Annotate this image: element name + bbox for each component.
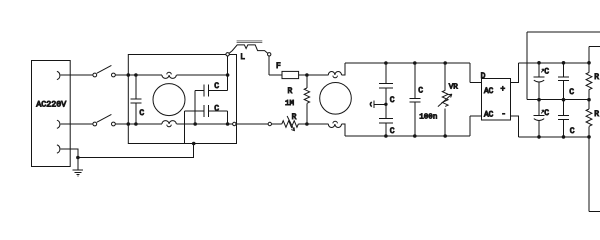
choke T2 top winding	[328, 71, 341, 77]
terminal 3 arc	[57, 145, 60, 153]
junction upper rail R2	[587, 61, 591, 65]
junction VR top rail	[443, 61, 447, 65]
capacitor C3 (lower cap in filter)	[184, 105, 227, 144]
svg-text:C: C	[214, 105, 219, 114]
wire node B to choke T2	[307, 123, 328, 125]
junction C4 top rail	[384, 61, 388, 65]
resistor R3 (bleeder lower)	[586, 100, 592, 137]
capacitor C2 (upper cap in filter)	[195, 56, 227, 124]
svg-text:C: C	[214, 82, 219, 91]
capacitor C10 (film lower)	[558, 100, 569, 137]
junction L at C2 drop	[226, 73, 230, 77]
capacitor C9 (electrolytic lower)	[534, 100, 545, 137]
wire bottom rail to bridge	[342, 124, 470, 136]
junction C1 bottom	[134, 122, 138, 126]
polarity mark C9	[541, 110, 543, 113]
choke T1 bottom winding	[162, 121, 176, 127]
wire from L down to fuse level	[269, 56, 282, 75]
svg-text:C: C	[569, 88, 574, 97]
wire filter N out to pot	[236, 123, 268, 125]
svg-text:F: F	[276, 62, 281, 71]
junction earth at filter case	[192, 142, 196, 146]
terminal 2 arc	[57, 120, 60, 128]
wire N to filter right side	[176, 123, 232, 125]
ground	[73, 158, 84, 177]
capacitor C4 (divider top)	[379, 63, 393, 104]
pin filter N out	[233, 122, 236, 125]
svg-text:C: C	[390, 127, 395, 136]
switch S1	[93, 65, 115, 77]
wire top rail to bridge	[342, 63, 470, 75]
chassis tab at divider midpoint	[370, 100, 386, 108]
common-mode choke T2 core circle	[320, 83, 352, 115]
svg-text:C: C	[390, 96, 395, 105]
svg-text:D: D	[481, 72, 486, 81]
wire midpoint rail	[527, 99, 589, 101]
junction C6 bottom rail	[413, 134, 417, 138]
junction C5 bottom rail	[384, 134, 388, 138]
wire midpoint rail to top output	[527, 32, 600, 100]
junction divider midpoint	[384, 103, 387, 106]
junction upper rail C8	[562, 61, 566, 65]
capacitor C5 (divider bottom)	[379, 104, 393, 136]
EMI filter module box	[128, 55, 236, 144]
common-mode choke T1 core circle	[153, 84, 185, 116]
junction C6 top rail	[413, 61, 417, 65]
wire upper rail to output	[589, 47, 600, 63]
svg-text:VR: VR	[449, 84, 459, 92]
bridge rectifier D	[482, 79, 511, 121]
choke T2 bottom winding	[328, 121, 341, 127]
polarity mark C7	[541, 69, 543, 72]
svg-text:AC: AC	[484, 112, 494, 120]
wire earth from terminal3	[61, 144, 194, 158]
resistor R2 (bleeder upper)	[586, 63, 592, 100]
capacitor C8 (film upper)	[558, 63, 569, 100]
svg-text:C: C	[544, 67, 549, 76]
pin L right	[268, 53, 271, 56]
resistor R1 1M	[304, 75, 309, 124]
capacitor C6 100n	[409, 63, 420, 136]
wire N from terminal2 to switch S2	[61, 123, 93, 125]
terminal 1 arc	[57, 71, 60, 79]
pin filter L out	[226, 53, 229, 56]
svg-text:R: R	[288, 87, 293, 96]
svg-text:AC220V: AC220V	[36, 101, 66, 110]
svg-text:+: +	[500, 85, 505, 94]
svg-text:C: C	[544, 109, 549, 118]
svg-text:C: C	[570, 127, 575, 136]
capacitor C1 (X-cap at filter input)	[130, 75, 141, 124]
junction earth at ground	[76, 156, 80, 160]
wire L from S1 into filter box	[115, 74, 162, 76]
junction VR bottom rail	[443, 134, 447, 138]
junction L at filter edge	[127, 73, 131, 77]
junction N at C2 left leg	[193, 122, 197, 126]
svg-text:L: L	[240, 53, 245, 62]
junction lower rail C10	[562, 135, 566, 139]
wire L from terminal1 to switch S1	[61, 74, 93, 76]
svg-text:1M: 1M	[285, 100, 295, 108]
AC source box	[32, 61, 71, 167]
junction node B bottom	[305, 122, 309, 126]
wire node A to choke T2	[307, 74, 328, 76]
wire into bridge AC bottom	[470, 116, 482, 136]
wire into bridge AC top	[470, 63, 482, 83]
potentiometer R (inrush resistor)	[272, 116, 307, 131]
svg-text:C: C	[418, 87, 423, 96]
junction lower rail R3	[587, 135, 591, 139]
svg-text:-: -	[501, 110, 506, 119]
wire fuse to node A	[299, 74, 307, 76]
junction mid rail C7	[537, 98, 541, 102]
varistor VR	[438, 63, 452, 136]
junction lower rail C9	[537, 135, 541, 139]
fuse F	[282, 71, 299, 78]
wire L to filter right side	[176, 74, 227, 76]
wire N from S2 into filter box	[115, 123, 162, 125]
junction mid rail R	[587, 98, 591, 102]
svg-text:R: R	[594, 110, 599, 119]
junction mid rail C8	[562, 98, 566, 102]
wire lower rail to output	[589, 137, 600, 212]
junction node A top	[305, 73, 309, 77]
pin N wire in	[268, 122, 271, 125]
wire bridge + to upper rail	[511, 63, 590, 83]
switch S2	[93, 114, 115, 126]
svg-text:C: C	[139, 109, 144, 118]
junction N at filter edge	[127, 122, 131, 126]
svg-text:R: R	[292, 113, 297, 122]
junction upper rail C7	[537, 61, 541, 65]
svg-text:AC: AC	[484, 88, 494, 96]
junction C1 top	[134, 73, 138, 77]
junction N at C3 drop	[226, 122, 230, 126]
choke T1 top winding	[162, 72, 176, 78]
svg-text:R: R	[594, 73, 599, 82]
wire bridge - to lower rail	[511, 116, 590, 137]
inductor L	[229, 41, 268, 53]
svg-text:100n: 100n	[419, 113, 437, 121]
capacitor C7 (electrolytic upper)	[534, 63, 545, 100]
